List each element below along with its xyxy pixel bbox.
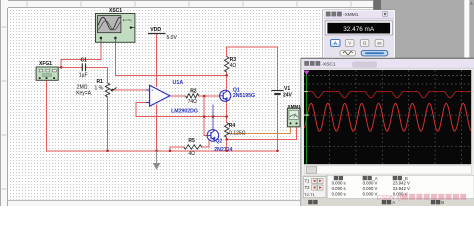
svg-text:VDD: VDD [150, 27, 161, 33]
svg-text:T2: T2 [305, 185, 311, 190]
svg-text:XFG1: XFG1 [39, 61, 52, 67]
svg-text:XMM1: XMM1 [288, 104, 302, 109]
svg-text:0.000 s: 0.000 s [332, 180, 346, 185]
svg-text:U1A: U1A [173, 80, 184, 86]
svg-text:5.0V: 5.0V [167, 35, 178, 41]
svg-text:0.125Ω: 0.125Ω [229, 130, 246, 136]
svg-text:-XMM1: -XMM1 [343, 12, 359, 18]
svg-text:0.000 V: 0.000 V [363, 180, 378, 185]
svg-text:C1: C1 [81, 57, 88, 63]
svg-text:T2-T1: T2-T1 [304, 192, 315, 197]
svg-text:23.942 V: 23.942 V [393, 186, 410, 191]
svg-text:1 %: 1 % [95, 85, 104, 91]
svg-text:4Ω: 4Ω [188, 151, 195, 157]
svg-text:23.942 V: 23.942 V [393, 180, 410, 185]
svg-text:Key=A: Key=A [76, 90, 92, 96]
svg-text:LM2902DG: LM2902DG [171, 109, 198, 115]
svg-text:XSC1: XSC1 [109, 8, 122, 14]
svg-text:T1: T1 [305, 179, 311, 184]
svg-text:32.476 mA: 32.476 mA [343, 26, 375, 33]
svg-text:4Ω: 4Ω [230, 63, 237, 69]
svg-text:CSDN @: CSDN @ [377, 194, 403, 201]
svg-text:Ext Trig: Ext Trig [123, 18, 132, 22]
svg-text:B: B [441, 200, 444, 205]
svg-text:R1: R1 [97, 79, 104, 85]
svg-text:dB: dB [377, 42, 382, 46]
svg-text:2N5195G: 2N5195G [233, 93, 255, 99]
svg-text:1µF: 1µF [79, 72, 88, 78]
svg-text:R4: R4 [229, 123, 236, 129]
svg-text:R5: R5 [188, 138, 195, 144]
svg-text:0.000 V: 0.000 V [363, 186, 378, 191]
svg-text:Q2: Q2 [215, 138, 222, 144]
svg-text:0.000 s: 0.000 s [332, 186, 346, 191]
svg-text:-XSC1: -XSC1 [321, 62, 335, 68]
svg-text:R2: R2 [190, 88, 197, 94]
svg-text:0.000 V: 0.000 V [363, 192, 378, 197]
svg-text:V1: V1 [284, 86, 290, 92]
svg-text:0.000 s: 0.000 s [332, 192, 346, 197]
svg-text:2N2714: 2N2714 [214, 147, 232, 153]
svg-text:74Ω: 74Ω [188, 99, 198, 105]
svg-text:24V: 24V [283, 93, 293, 99]
svg-text:V: V [348, 41, 351, 46]
